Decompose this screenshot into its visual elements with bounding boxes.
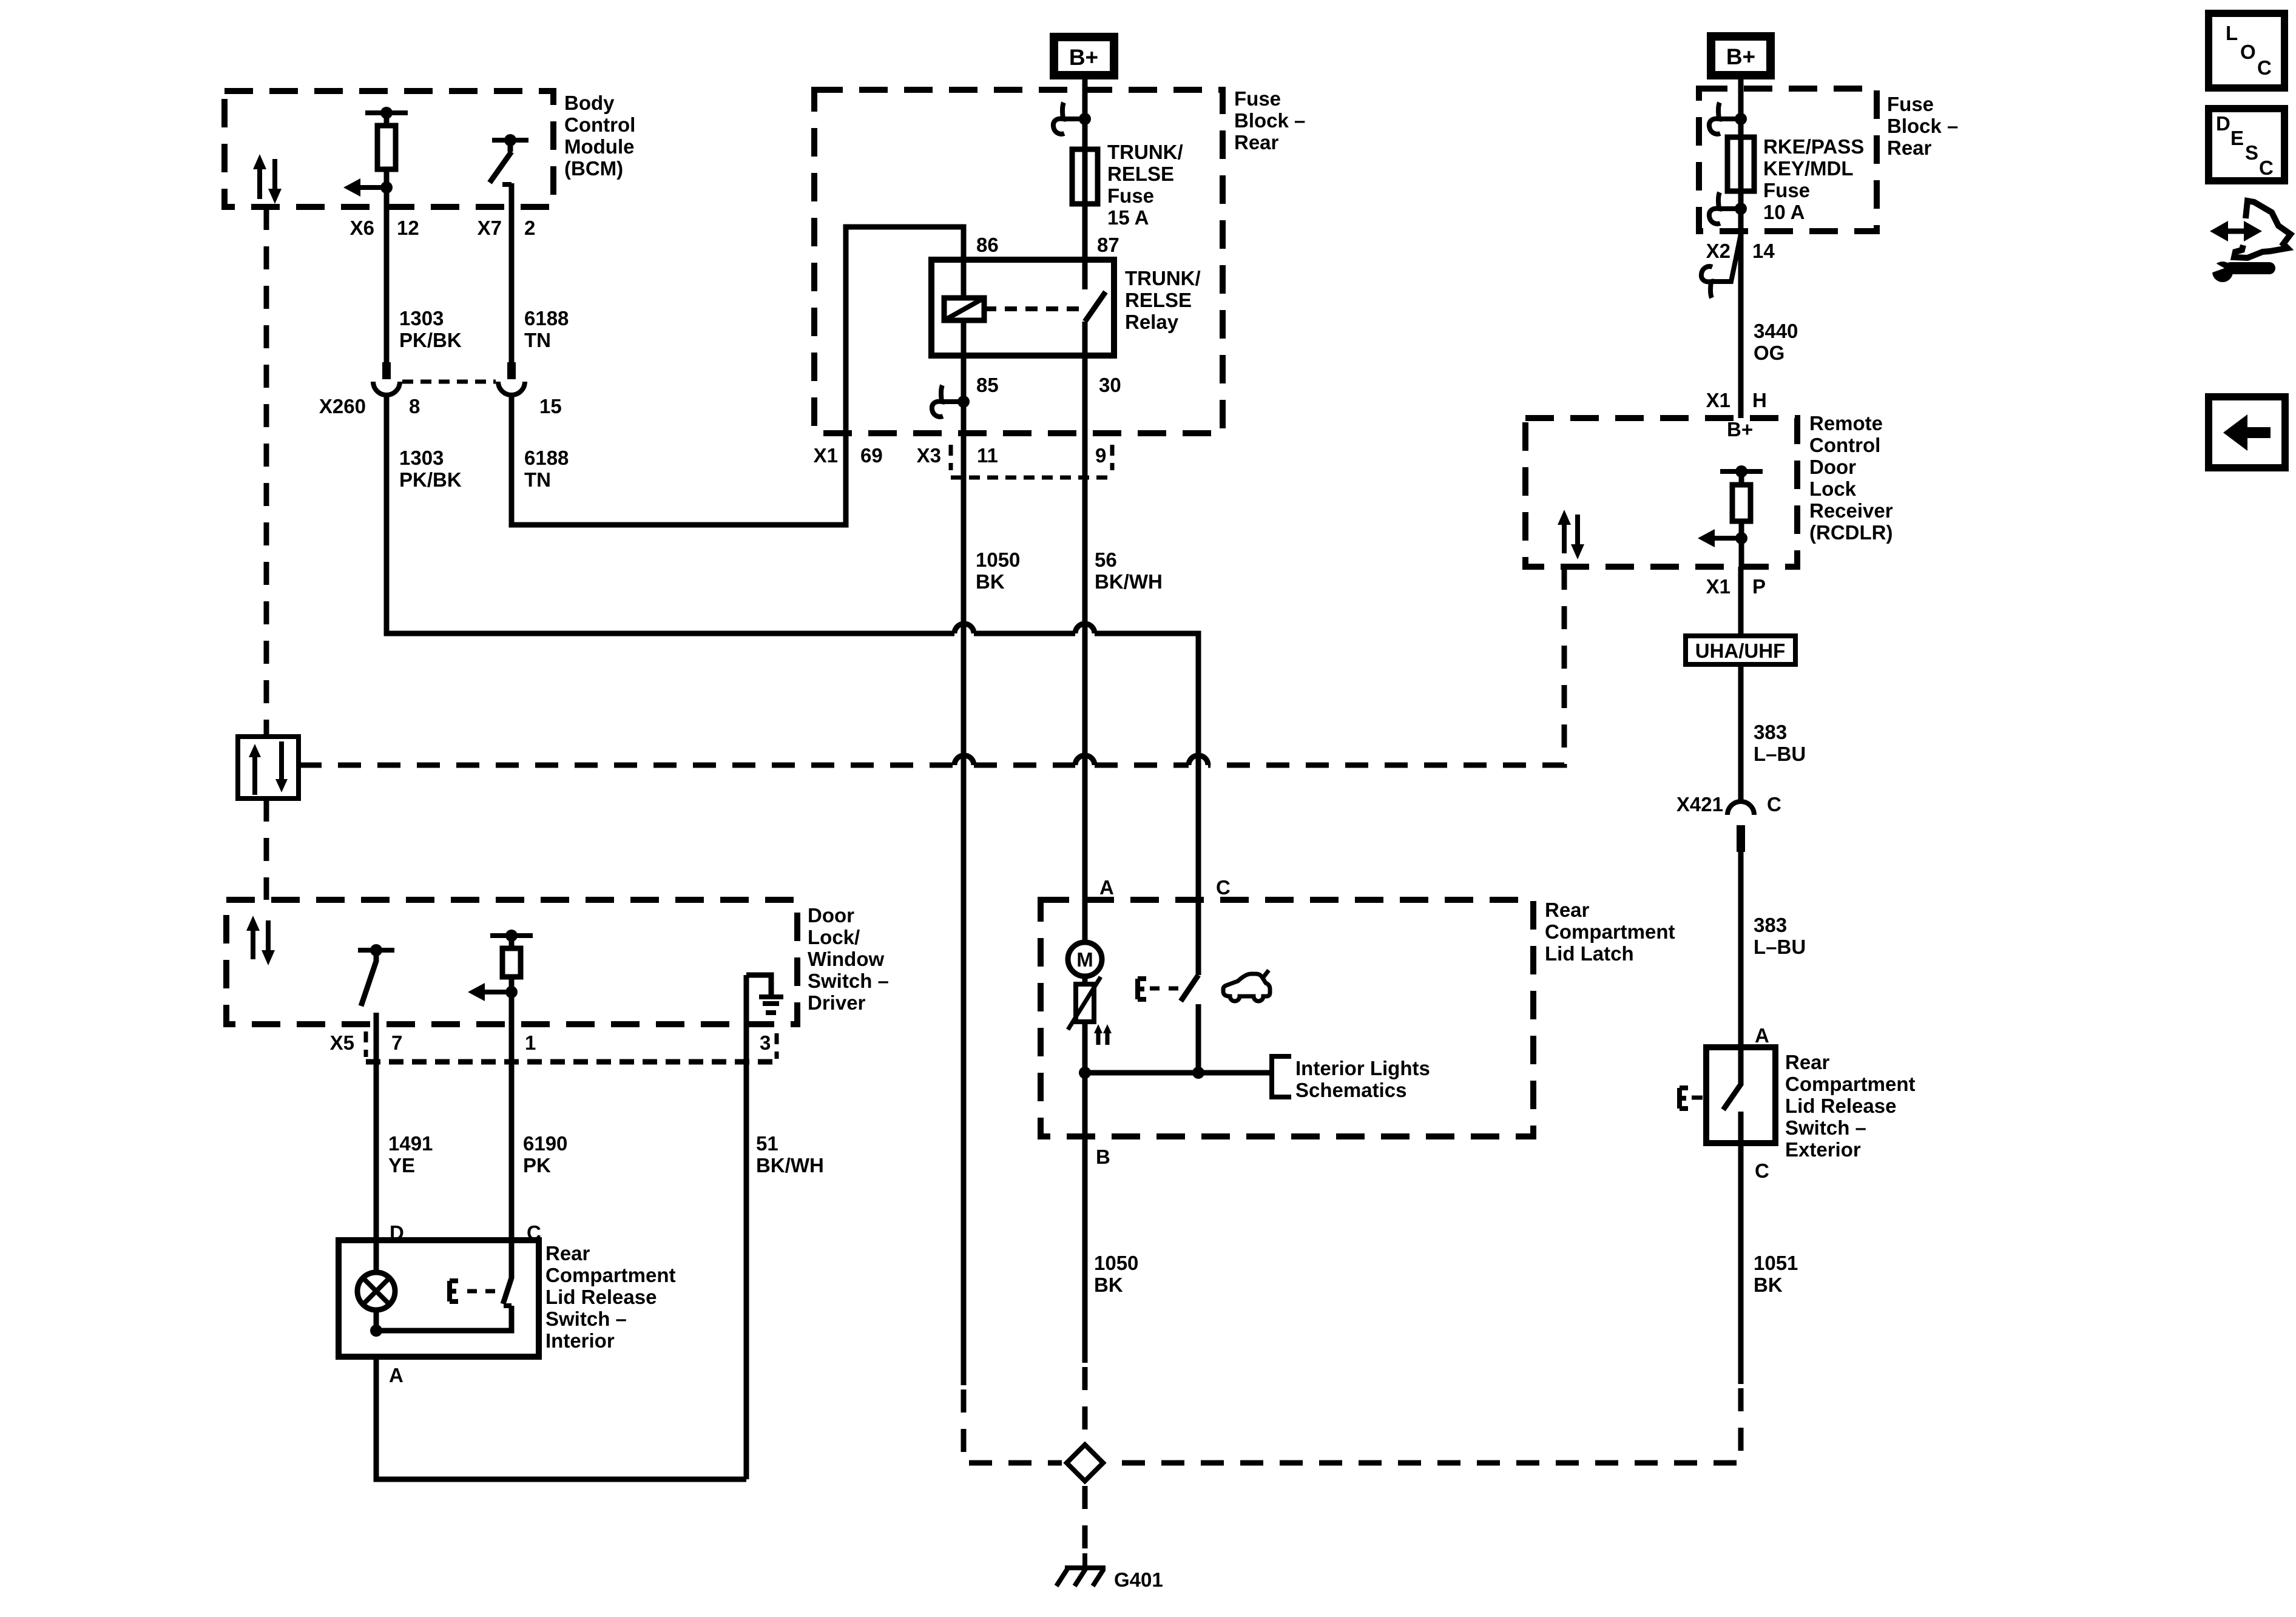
svg-text:Fuse: Fuse [1887, 93, 1934, 115]
svg-text:B+: B+ [1726, 44, 1755, 69]
svg-text:1303: 1303 [399, 447, 444, 469]
svg-text:BK/WH: BK/WH [756, 1154, 824, 1176]
svg-text:RELSE: RELSE [1125, 289, 1192, 311]
svg-text:TN: TN [524, 468, 551, 491]
svg-text:Lid Release: Lid Release [545, 1286, 657, 1308]
svg-text:PK/BK: PK/BK [399, 329, 462, 351]
svg-text:14: 14 [1752, 240, 1775, 262]
svg-text:Window: Window [808, 948, 884, 970]
svg-text:M: M [1076, 948, 1093, 971]
svg-text:L–BU: L–BU [1754, 936, 1806, 958]
svg-text:TRUNK/: TRUNK/ [1125, 267, 1201, 289]
svg-text:1051: 1051 [1754, 1252, 1798, 1274]
svg-text:11: 11 [977, 444, 998, 467]
svg-text:Driver: Driver [808, 991, 866, 1014]
svg-text:L: L [2226, 22, 2238, 44]
svg-text:A: A [389, 1364, 403, 1386]
svg-text:Rear: Rear [1234, 131, 1279, 154]
svg-text:Interior Lights: Interior Lights [1295, 1057, 1430, 1079]
svg-text:1050: 1050 [1094, 1252, 1138, 1274]
svg-text:15 A: 15 A [1107, 206, 1149, 229]
svg-text:E: E [2230, 127, 2244, 149]
svg-text:X6: X6 [350, 217, 374, 239]
svg-text:Lid Latch: Lid Latch [1545, 942, 1634, 965]
svg-text:(BCM): (BCM) [564, 157, 623, 180]
svg-text:56: 56 [1095, 549, 1117, 571]
svg-text:1491: 1491 [388, 1132, 433, 1155]
svg-text:Control: Control [1809, 434, 1880, 456]
svg-text:Rear: Rear [1785, 1051, 1830, 1073]
svg-text:(RCDLR): (RCDLR) [1809, 521, 1893, 544]
svg-text:12: 12 [397, 217, 419, 239]
svg-text:S: S [2245, 141, 2258, 164]
svg-text:Compartment: Compartment [545, 1264, 676, 1286]
svg-text:X1: X1 [1706, 389, 1730, 411]
svg-text:C: C [2257, 56, 2272, 79]
svg-text:Control: Control [564, 113, 635, 136]
svg-text:6188: 6188 [524, 307, 569, 329]
svg-text:X421: X421 [1676, 793, 1723, 815]
svg-text:RELSE: RELSE [1107, 163, 1174, 185]
svg-text:Lock/: Lock/ [808, 926, 860, 948]
svg-text:BK/WH: BK/WH [1095, 570, 1163, 593]
svg-text:X5: X5 [330, 1031, 354, 1054]
svg-text:15: 15 [539, 395, 562, 417]
svg-text:Switch –: Switch – [1785, 1116, 1866, 1139]
svg-text:6190: 6190 [523, 1132, 567, 1155]
svg-text:Rear: Rear [1887, 137, 1932, 159]
svg-text:Block –: Block – [1887, 115, 1958, 137]
svg-text:Fuse: Fuse [1234, 87, 1281, 110]
svg-text:Compartment: Compartment [1785, 1073, 1916, 1095]
svg-text:L–BU: L–BU [1754, 743, 1806, 765]
svg-text:3440: 3440 [1754, 320, 1798, 342]
svg-text:OG: OG [1754, 342, 1784, 364]
svg-text:X2: X2 [1706, 240, 1730, 262]
svg-text:Rear: Rear [545, 1242, 590, 1264]
svg-text:Module: Module [564, 135, 634, 158]
svg-text:3: 3 [760, 1031, 771, 1054]
svg-text:X7: X7 [478, 217, 502, 239]
svg-text:Lock: Lock [1809, 478, 1857, 500]
svg-text:X260: X260 [319, 395, 366, 417]
svg-text:1: 1 [525, 1031, 536, 1054]
svg-text:Interior: Interior [545, 1329, 615, 1352]
svg-text:PK: PK [523, 1154, 551, 1176]
svg-text:86: 86 [976, 234, 999, 256]
svg-text:383: 383 [1754, 914, 1787, 936]
svg-text:RKE/PASS: RKE/PASS [1763, 135, 1864, 158]
svg-text:G401: G401 [1114, 1568, 1163, 1591]
svg-text:383: 383 [1754, 721, 1787, 743]
svg-text:Body: Body [564, 92, 615, 114]
svg-text:Schematics: Schematics [1295, 1079, 1406, 1101]
svg-text:A: A [1099, 876, 1114, 899]
svg-text:UHA/UHF: UHA/UHF [1695, 640, 1785, 662]
svg-text:Lid Release: Lid Release [1785, 1095, 1896, 1117]
svg-text:C: C [2259, 157, 2274, 179]
svg-text:B: B [1096, 1146, 1110, 1168]
svg-text:Fuse: Fuse [1107, 184, 1154, 207]
svg-text:Receiver: Receiver [1809, 499, 1893, 522]
svg-text:BK: BK [976, 570, 1005, 593]
svg-text:1303: 1303 [399, 307, 444, 329]
svg-text:85: 85 [976, 374, 999, 396]
svg-text:Fuse: Fuse [1763, 179, 1810, 201]
svg-text:C: C [1216, 876, 1231, 899]
svg-text:Remote: Remote [1809, 412, 1883, 434]
svg-text:C: C [1767, 793, 1781, 815]
svg-text:Relay: Relay [1125, 311, 1179, 333]
svg-text:Compartment: Compartment [1545, 920, 1675, 943]
svg-text:9: 9 [1095, 444, 1106, 467]
svg-text:YE: YE [388, 1154, 415, 1176]
svg-text:Rear: Rear [1545, 899, 1590, 921]
svg-text:69: 69 [860, 444, 883, 467]
svg-text:C: C [1755, 1160, 1769, 1182]
svg-text:TN: TN [524, 329, 551, 351]
svg-text:Switch –: Switch – [808, 970, 889, 992]
svg-text:PK/BK: PK/BK [399, 468, 462, 491]
svg-text:P: P [1752, 575, 1766, 598]
svg-text:D: D [2216, 112, 2230, 135]
svg-text:Block –: Block – [1234, 109, 1305, 132]
svg-text:7: 7 [391, 1031, 402, 1054]
svg-text:A: A [1755, 1024, 1769, 1047]
svg-text:B+: B+ [1069, 45, 1098, 70]
svg-text:2: 2 [524, 217, 535, 239]
svg-text:Door: Door [1809, 456, 1856, 478]
svg-text:C: C [527, 1221, 541, 1244]
svg-text:B+: B+ [1727, 418, 1753, 441]
svg-text:10 A: 10 A [1763, 201, 1805, 223]
svg-text:6188: 6188 [524, 447, 569, 469]
svg-text:X3: X3 [917, 444, 941, 467]
svg-text:Switch –: Switch – [545, 1308, 627, 1330]
svg-text:X1: X1 [814, 444, 838, 467]
svg-text:Door: Door [808, 904, 854, 927]
svg-text:1050: 1050 [976, 549, 1020, 571]
svg-text:X1: X1 [1706, 575, 1730, 598]
svg-text:30: 30 [1099, 374, 1121, 396]
svg-text:87: 87 [1097, 234, 1119, 256]
svg-text:TRUNK/: TRUNK/ [1107, 141, 1183, 163]
svg-text:Exterior: Exterior [1785, 1138, 1861, 1161]
svg-text:O: O [2240, 41, 2256, 63]
svg-text:BK: BK [1754, 1274, 1783, 1296]
svg-text:KEY/MDL: KEY/MDL [1763, 157, 1854, 180]
svg-text:D: D [390, 1221, 404, 1244]
svg-text:51: 51 [756, 1132, 778, 1155]
svg-text:BK: BK [1094, 1274, 1123, 1296]
svg-text:8: 8 [409, 395, 420, 417]
svg-text:H: H [1752, 389, 1767, 411]
